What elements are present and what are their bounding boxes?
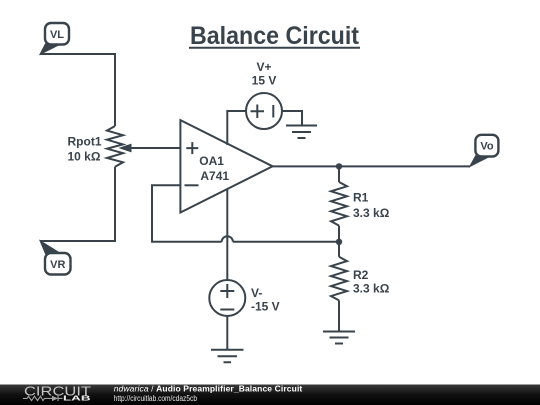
svg-text:3.3 kΩ: 3.3 kΩ xyxy=(353,282,390,296)
wire VL to potentiometer top xyxy=(40,54,115,126)
wire inverting input feedback xyxy=(152,185,222,242)
svg-text:LAB: LAB xyxy=(63,394,92,403)
label R1 value xyxy=(353,191,390,220)
svg-text:A741: A741 xyxy=(200,169,229,183)
terminal Vo xyxy=(470,135,499,167)
wire V- to ground xyxy=(226,316,228,350)
wire R2 to ground xyxy=(338,300,340,331)
voltage source V- xyxy=(209,280,245,316)
title underline xyxy=(189,47,360,49)
svg-text:Vo: Vo xyxy=(480,141,494,153)
terminal VR xyxy=(40,241,71,275)
footer bar xyxy=(0,385,540,405)
wire R1 to node xyxy=(338,226,340,242)
svg-text:http://circuitlab.com/cdaz5cb: http://circuitlab.com/cdaz5cb xyxy=(114,394,198,403)
wire V+ to ground xyxy=(282,111,302,126)
ground (V-) xyxy=(211,350,244,363)
resistor R2 xyxy=(331,257,347,301)
svg-text:Rpot1: Rpot1 xyxy=(68,134,102,148)
voltage source V+ xyxy=(246,93,282,129)
footer text xyxy=(114,384,303,404)
node junction between R1 R2 xyxy=(336,239,342,245)
terminal VL xyxy=(40,23,69,54)
node junction at output xyxy=(336,163,342,169)
svg-text:R1: R1 xyxy=(353,191,369,205)
op-amp OA1 xyxy=(180,120,272,212)
wire op-amp output to Vo xyxy=(273,165,470,167)
svg-text:10 kΩ: 10 kΩ xyxy=(68,149,101,163)
wire potentiometer bottom to VR xyxy=(40,167,115,241)
svg-text:OA1: OA1 xyxy=(199,154,224,168)
svg-text:VR: VR xyxy=(50,259,65,271)
label OA1 xyxy=(199,154,229,183)
wire hop over V- pin xyxy=(222,236,233,242)
wire node to R1 xyxy=(338,166,340,182)
svg-text:15 V: 15 V xyxy=(252,74,277,88)
ground (R2) xyxy=(323,332,355,344)
label V+ 15V xyxy=(252,60,277,88)
label Rpot1 value xyxy=(68,134,102,163)
resistor R1 xyxy=(331,182,347,226)
wire op-amp V+ pin xyxy=(227,111,246,145)
svg-text:-15 V: -15 V xyxy=(251,300,280,314)
wire node to R2 xyxy=(338,242,340,257)
ground (V+) xyxy=(286,126,317,139)
wire hop to node xyxy=(233,241,339,243)
wire op-amp V- pin xyxy=(226,189,228,280)
svg-text:R2: R2 xyxy=(353,268,369,282)
svg-text:VL: VL xyxy=(50,29,64,41)
svg-text:3.3 kΩ: 3.3 kΩ xyxy=(353,206,390,220)
svg-text:V+: V+ xyxy=(256,60,271,74)
svg-text:V-: V- xyxy=(251,286,262,300)
title xyxy=(190,22,360,50)
svg-text:ndwarica / Audio Preamplifier_: ndwarica / Audio Preamplifier_Balance Ci… xyxy=(114,384,303,394)
svg-text:Balance Circuit: Balance Circuit xyxy=(190,22,360,50)
potentiometer Rpot1 xyxy=(107,126,180,167)
label V- -15V xyxy=(251,286,280,314)
label R2 value xyxy=(353,268,390,296)
CircuitLab logo xyxy=(23,383,92,402)
